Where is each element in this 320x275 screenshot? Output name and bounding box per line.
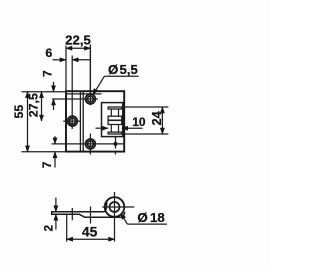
svg-text:2: 2 xyxy=(42,225,55,231)
svg-text:10: 10 xyxy=(132,115,146,129)
hole H3 bottom xyxy=(86,139,96,149)
dimension 6 xyxy=(53,59,91,61)
dimension 45 xyxy=(67,215,115,242)
knuckle spool upper shaft xyxy=(110,109,112,116)
hole H3 center lines xyxy=(52,134,125,155)
svg-text:45: 45 xyxy=(82,223,98,239)
svg-text:22,5: 22,5 xyxy=(65,33,91,48)
dimension 22,5 xyxy=(66,46,90,95)
dimension 2 xyxy=(55,198,57,230)
knuckle spool middle band xyxy=(108,116,122,124)
dimension 7 top xyxy=(53,82,55,110)
dimension 7 bottom xyxy=(54,136,56,167)
eye center lines xyxy=(102,192,134,242)
knuckle cutout xyxy=(102,103,123,137)
strap hole center line left xyxy=(71,208,73,220)
svg-text:7: 7 xyxy=(41,70,55,77)
svg-text:6: 6 xyxy=(45,46,52,60)
svg-text:55: 55 xyxy=(12,105,26,119)
svg-text:Ø5,5: Ø5,5 xyxy=(108,62,138,77)
plate bend line left xyxy=(79,91,81,151)
dimension 10 xyxy=(96,127,143,129)
knuckle spool top cap xyxy=(108,107,122,109)
plate bend line right xyxy=(82,91,84,151)
plate outline xyxy=(66,91,124,151)
svg-text:7: 7 xyxy=(40,161,54,168)
svg-text:Ø18: Ø18 xyxy=(137,210,164,225)
bottom view strap outline xyxy=(52,202,125,217)
dimension 24 xyxy=(123,107,168,134)
eye inner circle xyxy=(110,202,120,212)
svg-text:27,5: 27,5 xyxy=(26,93,40,117)
svg-text:24: 24 xyxy=(150,111,164,125)
strap hole center line right xyxy=(90,207,92,224)
hole H2 middle left xyxy=(68,116,78,126)
barrel axis dot marker xyxy=(113,137,117,155)
knuckle spool lower shaft xyxy=(110,125,112,133)
plate rolled edge line xyxy=(66,93,102,95)
dimension 27,5 xyxy=(41,92,43,121)
hole H1 center lines xyxy=(52,45,98,106)
hole H1 top xyxy=(86,94,96,104)
dimension 55 xyxy=(22,92,67,152)
eye outer circle xyxy=(105,197,125,217)
label diameter 18 xyxy=(122,215,167,224)
label diameter 5,5 xyxy=(94,76,139,93)
hole H2 center lines xyxy=(63,56,80,130)
knuckle spool bottom cap xyxy=(108,132,122,134)
